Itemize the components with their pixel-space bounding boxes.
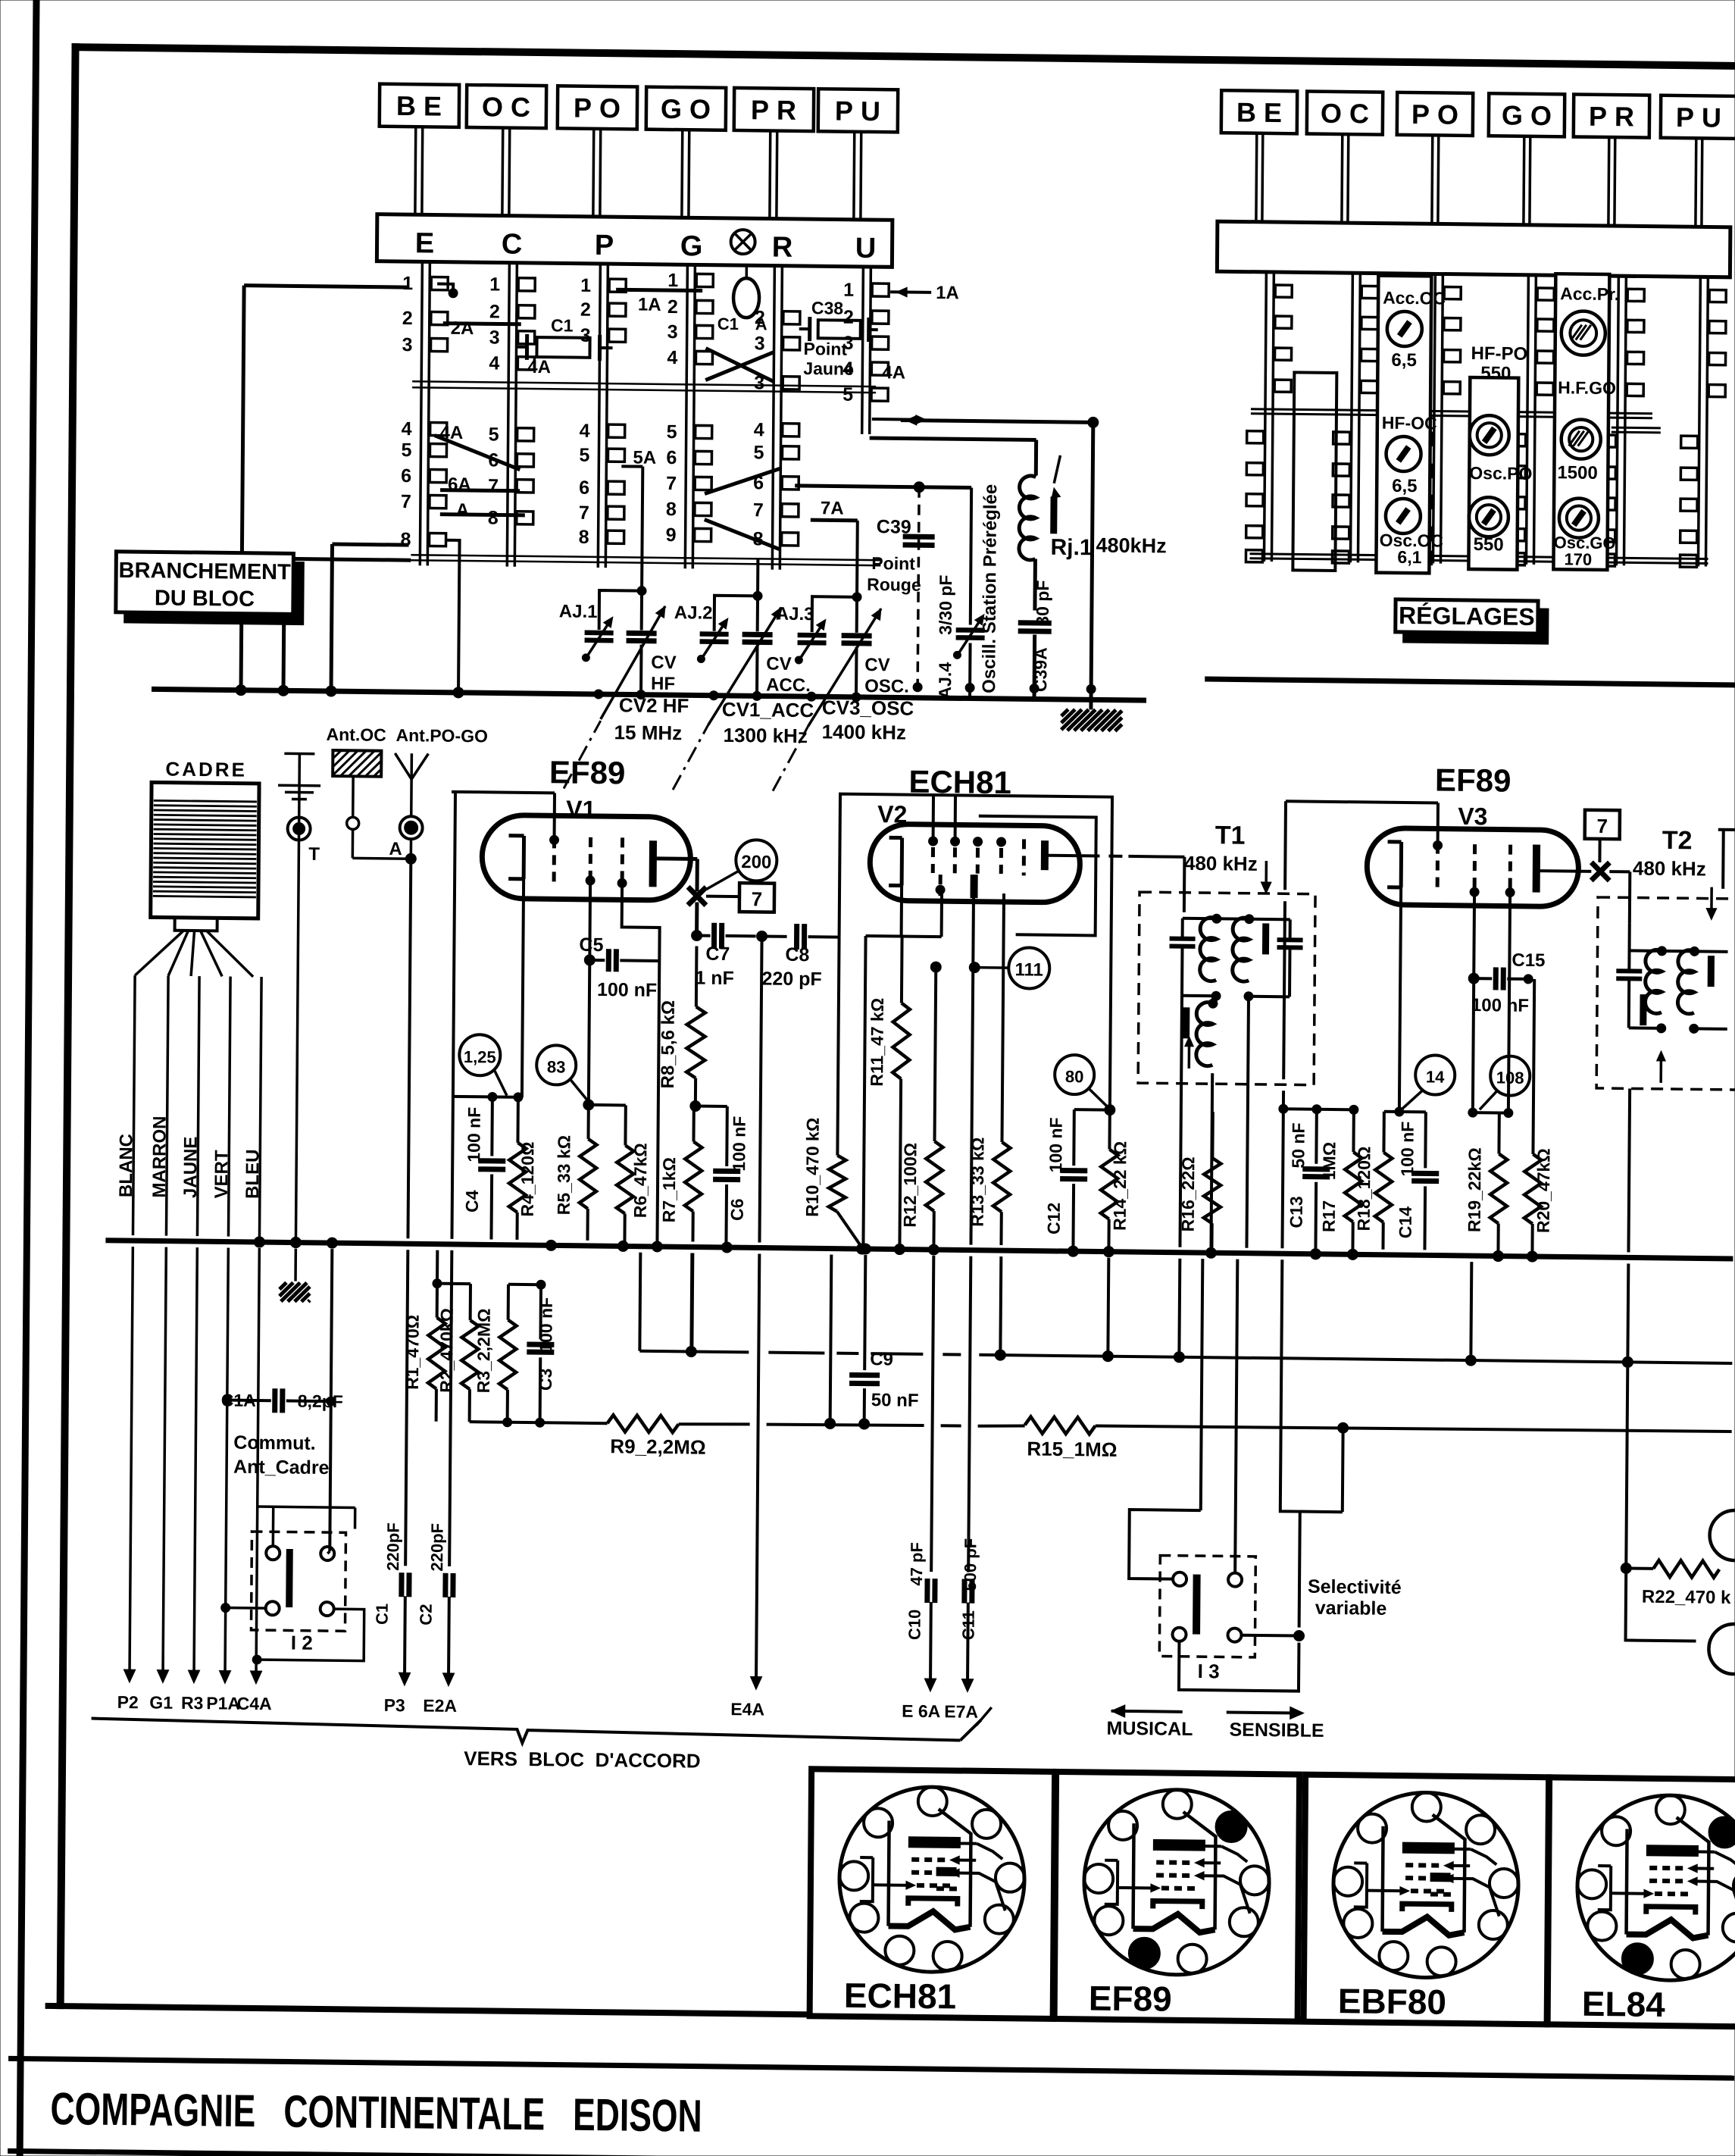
svg-text:C10: C10 [905, 1610, 924, 1641]
svg-text:V1: V1 [566, 796, 596, 823]
label E6A E7A [976, 1725, 977, 1726]
svg-text:E: E [415, 227, 435, 259]
switch strip U [842, 267, 889, 435]
T2 secondary coil [1677, 947, 1727, 1034]
svg-text:O C: O C [482, 91, 530, 123]
wire cathode V2 [866, 885, 943, 937]
svg-text:R18_120Ω: R18_120Ω [1354, 1146, 1374, 1231]
svg-text:AJ.1: AJ.1 [559, 601, 598, 622]
V2 lower grid [936, 875, 945, 896]
transformer T1 box [1138, 892, 1315, 1085]
label Oscill Station [979, 484, 1001, 693]
wire E4A column [730, 936, 771, 1719]
svg-text:R8_5,6 kΩ: R8_5,6 kΩ [658, 1000, 679, 1089]
svg-text:P2: P2 [117, 1692, 139, 1712]
screw HFGO [1557, 419, 1601, 483]
svg-text:CV: CV [864, 655, 890, 675]
svg-text:E4A: E4A [730, 1699, 764, 1719]
svg-text:5: 5 [489, 424, 499, 445]
capacitor C15 [1468, 892, 1546, 1016]
wire [872, 415, 926, 424]
svg-text:C5: C5 [579, 934, 603, 956]
line A [639, 1253, 1733, 1363]
svg-text:50 nF: 50 nF [871, 1390, 919, 1411]
wire [869, 438, 1036, 475]
gather line [91, 1710, 980, 1748]
wire [434, 436, 520, 470]
V2 grid box [838, 794, 1112, 1107]
node [223, 1395, 232, 1404]
rail [1251, 409, 1652, 418]
circle 1-25 [459, 1034, 508, 1096]
svg-text:A: A [456, 500, 470, 521]
svg-text:R19_22kΩ: R19_22kΩ [1465, 1147, 1485, 1232]
wire [705, 520, 780, 549]
wire [241, 286, 407, 692]
line B segment [679, 1419, 1732, 1436]
line B [470, 1417, 608, 1428]
svg-text:U: U [855, 233, 877, 264]
variable capacitor CV HF [601, 586, 677, 720]
trimmer AJ2 [674, 595, 758, 663]
wire MARRON / pin G1 [145, 975, 179, 1712]
svg-text:7: 7 [752, 887, 763, 910]
svg-text:C8: C8 [785, 944, 809, 965]
svg-text:C1: C1 [373, 1604, 392, 1625]
selector box PO [1396, 92, 1473, 224]
svg-text:7A: 7A [821, 498, 844, 518]
resistor R20 [1521, 975, 1555, 1262]
capacitor C3 [527, 1285, 556, 1422]
svg-text:100 nF: 100 nF [1397, 1122, 1418, 1177]
label Commut [233, 1432, 330, 1479]
svg-text:ECH81: ECH81 [844, 1976, 957, 2017]
resistor R12 [899, 962, 944, 1245]
panel OC [1376, 276, 1431, 574]
node [236, 685, 336, 697]
V1 grid1 [549, 835, 558, 884]
svg-text:C1: C1 [551, 315, 574, 335]
V1 grid3 [617, 837, 627, 887]
box 7 V3 [1584, 810, 1620, 863]
svg-text:AJ.4: AJ.4 [935, 662, 955, 699]
circle 83 [536, 1045, 589, 1102]
svg-text:T2: T2 [1662, 826, 1693, 855]
trimmer AJ1 [558, 590, 642, 662]
circle 108 [1480, 1056, 1530, 1110]
V3 grid1 [1433, 840, 1442, 887]
label T1 [1184, 821, 1272, 893]
pin label 1A [638, 295, 661, 315]
svg-text:COMPAGNIE CONTINENTALE EDI: COMPAGNIE CONTINENTALE EDISON [50, 2083, 702, 2142]
svg-text:C4A: C4A [237, 1694, 272, 1714]
svg-text:P O: P O [1411, 99, 1458, 130]
V2 lower anode [971, 875, 977, 898]
wire [696, 1104, 727, 1107]
selector box PO [557, 86, 637, 217]
svg-text:4: 4 [667, 347, 677, 368]
wire [858, 936, 871, 1254]
coupling rod [1293, 372, 1336, 571]
svg-text:7: 7 [488, 475, 499, 496]
wire [453, 1092, 523, 1102]
svg-text:Acc.Pr.: Acc.Pr. [1560, 283, 1619, 304]
wire [691, 1253, 692, 1351]
capacitor C14 [1395, 1112, 1439, 1250]
transformer T2 box [1596, 897, 1735, 1091]
wire [257, 1507, 355, 1554]
main ground bus [105, 1241, 1733, 1259]
svg-text:R5_33 kΩ: R5_33 kΩ [554, 1135, 574, 1216]
svg-text:6,1: 6,1 [1397, 547, 1421, 567]
wire [830, 1255, 832, 1424]
capacitor C8 [761, 923, 839, 990]
resistor R5 [553, 1104, 596, 1241]
svg-text:4: 4 [754, 419, 764, 440]
svg-text:100 nF: 100 nF [464, 1107, 484, 1162]
reglages strip R [1598, 276, 1644, 567]
resistor R10 [802, 937, 862, 1245]
capacitor C1 220pF [372, 864, 417, 1716]
V2 grid [973, 837, 982, 874]
wire [508, 1280, 546, 1321]
wire VERT / pin P1A [206, 976, 245, 1713]
screw Osc.OC [1379, 499, 1443, 568]
svg-text:A: A [389, 839, 402, 859]
svg-text:50 nF: 50 nF [1288, 1122, 1308, 1168]
reglages strip E [1246, 272, 1292, 563]
V2 cathode [889, 837, 902, 885]
leader CV1 [673, 724, 708, 790]
pin label 6A [448, 474, 471, 495]
svg-text:220pF: 220pF [383, 1522, 402, 1571]
wire [1626, 1568, 1697, 1641]
svg-text:47 pF: 47 pF [907, 1542, 926, 1586]
upper ground bus [152, 689, 1146, 700]
resistor R14 [1100, 1110, 1130, 1257]
capacitor C2 [416, 1523, 458, 1716]
screw Acc.Pr [1560, 283, 1620, 355]
selector box OC [1306, 92, 1383, 224]
selector box GO [1488, 93, 1565, 225]
svg-text:2: 2 [667, 296, 678, 318]
svg-text:7: 7 [579, 502, 589, 524]
capacitor C39A [1018, 580, 1052, 699]
wire [440, 515, 525, 515]
circle 111 [969, 947, 1049, 989]
svg-text:111: 111 [1014, 959, 1043, 980]
svg-text:R14_22 kΩ: R14_22 kΩ [1110, 1141, 1130, 1231]
wire grid V3 [1468, 978, 1500, 1117]
T2 primary coil [1629, 946, 1695, 1033]
T1 secondary coil [1232, 914, 1290, 1001]
svg-text:15 MHz: 15 MHz [614, 721, 683, 744]
svg-text:EBF80: EBF80 [1338, 1981, 1447, 2022]
reglages strip C [1332, 273, 1378, 564]
wire [971, 898, 975, 968]
label T2 [1632, 825, 1717, 919]
pin label 7A [821, 498, 844, 518]
V3 anode [1533, 845, 1540, 892]
svg-text:1MΩ: 1MΩ [1319, 1142, 1339, 1181]
svg-text:8: 8 [666, 499, 677, 520]
label CADRE [165, 758, 247, 781]
antenna Ant.PO-GO [389, 725, 488, 860]
svg-text:7: 7 [1596, 815, 1608, 837]
wire C5R [657, 955, 659, 1241]
node [594, 679, 1096, 704]
resistor R7 [658, 1109, 702, 1242]
svg-text:30 pF: 30 pF [1033, 580, 1052, 625]
svg-text:550: 550 [1474, 534, 1504, 555]
node [690, 1100, 701, 1111]
svg-text:P U: P U [835, 95, 880, 127]
svg-text:6,5: 6,5 [1392, 476, 1418, 496]
wire [324, 1238, 337, 1551]
svg-text:ACC.: ACC. [766, 675, 811, 696]
label V1 [566, 796, 596, 823]
resistor R17 [1318, 1109, 1362, 1260]
svg-text:CV3_OSC: CV3_OSC [822, 696, 914, 719]
switch I2 box [251, 1532, 345, 1631]
svg-text:E7A: E7A [944, 1701, 978, 1722]
svg-text:550: 550 [1480, 363, 1511, 383]
node [437, 284, 458, 298]
switch strip P [578, 264, 626, 568]
svg-text:I 3: I 3 [1198, 1660, 1220, 1682]
svg-text:P R: P R [1589, 101, 1634, 133]
svg-text:1A: 1A [638, 295, 661, 315]
svg-text:R3: R3 [181, 1693, 204, 1713]
selector box BE [379, 84, 459, 215]
svg-text:7: 7 [401, 491, 411, 512]
pin label Point Jaune [803, 339, 854, 379]
circle 80 [1055, 1055, 1108, 1107]
svg-text:C14: C14 [1396, 1206, 1415, 1239]
svg-text:R20_47kΩ: R20_47kΩ [1533, 1148, 1554, 1233]
svg-text:14: 14 [1426, 1067, 1445, 1086]
svg-text:6: 6 [579, 477, 589, 499]
resistor R15 [1024, 1416, 1118, 1460]
wire BLEU / pin C4A [237, 977, 277, 1714]
svg-text:CV: CV [651, 652, 677, 673]
tube socket EL84 [1548, 1777, 1735, 2027]
coil Rj.1 [1018, 455, 1167, 612]
svg-text:R2_470kΩ: R2_470kΩ [436, 1308, 457, 1393]
wire [445, 540, 465, 698]
switch strip C [487, 262, 535, 567]
svg-text:T1: T1 [1215, 821, 1246, 850]
wire [616, 289, 702, 290]
svg-text:Oscill. Station Préréglée: Oscill. Station Préréglée [979, 484, 1001, 693]
svg-text:C: C [502, 229, 523, 261]
svg-text:C12: C12 [1044, 1203, 1064, 1234]
label I2 [291, 1632, 313, 1654]
resistor R16 [1177, 1112, 1221, 1248]
V3 grid2 [1470, 844, 1480, 897]
svg-text:Point: Point [871, 553, 915, 574]
resistor R9 [607, 1415, 706, 1458]
svg-text:I 2: I 2 [291, 1632, 313, 1654]
svg-text:T: T [308, 844, 320, 865]
wire [1718, 830, 1735, 889]
svg-text:3: 3 [755, 333, 765, 354]
wire [589, 960, 627, 1106]
circle 200 [706, 840, 777, 890]
wire BLANC / pin P2 [112, 975, 145, 1712]
wire [899, 415, 1099, 709]
svg-text:AJ.2: AJ.2 [674, 602, 713, 624]
svg-text:E2A: E2A [423, 1696, 457, 1716]
wire [440, 490, 520, 491]
svg-text:R17: R17 [1319, 1200, 1339, 1232]
svg-text:V3: V3 [1458, 803, 1487, 830]
svg-text:8: 8 [488, 507, 499, 528]
wire [954, 795, 957, 841]
svg-text:EF89: EF89 [549, 754, 626, 790]
V2 anode out [1048, 856, 1185, 912]
svg-text:R13_33 kΩ: R13_33 kΩ [968, 1137, 988, 1226]
resistor R8 [658, 946, 706, 1103]
capacitor C6 [712, 1106, 749, 1243]
svg-text:C4: C4 [462, 1190, 482, 1213]
wire [695, 902, 699, 935]
breakpoint X [688, 887, 706, 905]
selector box BE [1221, 90, 1297, 222]
selector box PU [817, 89, 898, 220]
svg-text:BLEU: BLEU [242, 1149, 264, 1199]
wire grid1 top [452, 792, 555, 839]
node [290, 1237, 301, 1247]
tube V3 [1367, 828, 1579, 906]
wire anode [656, 859, 697, 892]
label CV3-OSC [822, 696, 914, 743]
svg-text:HF-OC: HF-OC [1382, 413, 1437, 433]
svg-text:6: 6 [666, 447, 677, 468]
svg-text:6: 6 [401, 465, 411, 487]
V2 grid [950, 837, 959, 873]
switch strip R [752, 265, 800, 570]
antenna Ant.OC [325, 724, 411, 859]
svg-text:480kHz: 480kHz [1096, 534, 1166, 557]
svg-text:C2: C2 [417, 1604, 436, 1625]
label HF.GO [1558, 377, 1616, 398]
wire [1102, 1258, 1114, 1362]
svg-text:C1: C1 [717, 314, 739, 333]
node [692, 930, 702, 940]
panel PO [1468, 377, 1518, 570]
wire cathode V3 [1395, 887, 1405, 1116]
resistor R4 [508, 1097, 537, 1240]
screw Osc.PO [1469, 497, 1509, 555]
svg-text:R4_120Ω: R4_120Ω [517, 1141, 538, 1216]
svg-text:Selectivité: Selectivité [1308, 1576, 1402, 1598]
leader CV2 [564, 720, 601, 789]
capacitor C12 [1043, 1109, 1109, 1257]
capacitor C39 [875, 481, 935, 687]
svg-text:G1: G1 [149, 1692, 173, 1712]
svg-text:R9_2,2MΩ: R9_2,2MΩ [610, 1435, 706, 1458]
capacitor C38 [799, 298, 878, 342]
label box BRANCHEMENT DU BLOC [116, 552, 305, 625]
V3 grid3 [1505, 845, 1515, 897]
svg-text:VERS BLOC D'ACCORD: VERS BLOC D'ACCORD [464, 1747, 701, 1773]
label CV1-ACC [722, 698, 814, 747]
svg-text:4: 4 [580, 421, 590, 442]
resistor R19 [1464, 1112, 1508, 1262]
wire grid box left [449, 792, 455, 1566]
svg-text:1,25: 1,25 [464, 1047, 496, 1066]
svg-text:G O: G O [661, 93, 711, 125]
node [583, 1100, 594, 1110]
trimmer AJ.4 [935, 487, 986, 699]
svg-text:1400 kHz: 1400 kHz [822, 720, 907, 743]
rail [1249, 554, 1708, 564]
svg-text:Acc.OC: Acc.OC [1383, 288, 1446, 308]
svg-text:VERT: VERT [211, 1150, 232, 1199]
svg-text:HF-PO: HF-PO [1471, 343, 1527, 365]
wire [283, 559, 411, 692]
bus nodes [254, 1237, 1537, 1262]
svg-text:C13: C13 [1286, 1196, 1306, 1228]
svg-text:DU BLOC: DU BLOC [155, 586, 255, 611]
svg-text:5: 5 [753, 442, 764, 463]
wire [1384, 1110, 1399, 1113]
svg-text:4A: 4A [882, 362, 905, 383]
wire [443, 324, 521, 324]
rail [411, 555, 880, 565]
svg-text:CV2 HF: CV2 HF [619, 693, 689, 717]
svg-text:Rouge: Rouge [867, 574, 921, 595]
svg-text:2: 2 [843, 307, 854, 328]
svg-text:6,5: 6,5 [1391, 350, 1417, 371]
wire fan [135, 930, 253, 977]
svg-text:BLANC: BLANC [116, 1134, 137, 1197]
screw Acc.OC [1382, 288, 1446, 371]
svg-text:3: 3 [489, 327, 500, 348]
wire [331, 544, 408, 692]
wire pin6 [795, 486, 971, 488]
switch strip E [400, 261, 448, 566]
V2 grid5 [1022, 839, 1026, 875]
svg-text:EL84: EL84 [1582, 1984, 1666, 2024]
label Point Rouge [867, 553, 921, 595]
svg-text:5: 5 [579, 445, 589, 466]
pin label 2A [451, 318, 474, 339]
I3 contacts [1172, 1572, 1242, 1642]
svg-text:P O: P O [574, 92, 621, 124]
wire [1621, 1367, 1633, 1573]
node [254, 1237, 264, 1247]
svg-text:80: 80 [1065, 1067, 1084, 1086]
screw Osc.GO [1553, 498, 1616, 569]
svg-text:Ant.PO-GO: Ant.PO-GO [395, 725, 488, 746]
terminal T [274, 753, 320, 1281]
V3 cathode [1387, 842, 1401, 887]
switch bar [377, 214, 892, 268]
T2 arrow [1656, 1051, 1665, 1083]
svg-text:480 kHz: 480 kHz [1633, 856, 1706, 880]
svg-text:R3_2,2MΩ: R3_2,2MΩ [474, 1308, 494, 1393]
wire [1246, 997, 1249, 1248]
svg-text:1: 1 [667, 270, 678, 291]
svg-text:Jaune: Jaune [803, 358, 854, 379]
svg-text:C7: C7 [705, 943, 730, 965]
resistor R1 [402, 1283, 445, 1422]
wire [252, 1608, 364, 1666]
svg-text:H.F.GO: H.F.GO [1558, 377, 1616, 398]
T1 primary cap [1167, 918, 1195, 1247]
